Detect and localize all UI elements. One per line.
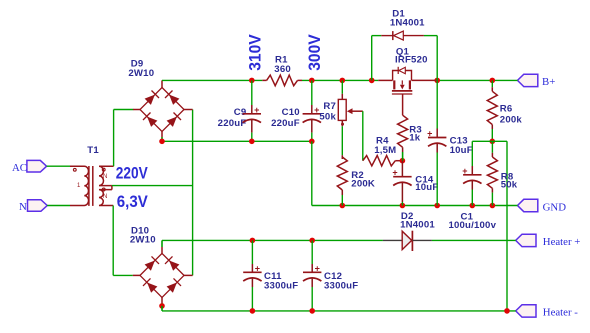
wire middle tap vertical to D9 and D10 — [192, 110, 194, 276]
junction C13 bottom — [434, 203, 440, 209]
junction C10 bottom — [309, 139, 315, 145]
svg-text:1N4001: 1N4001 — [400, 220, 435, 231]
junction R4 R3 C14 — [400, 158, 406, 164]
junction R2 bottom — [340, 203, 346, 209]
port B+ — [518, 74, 538, 86]
bridge rectifier D10 — [130, 225, 193, 311]
svg-text:200k: 200k — [500, 115, 523, 126]
wire heater+ rail right — [432, 239, 516, 241]
svg-text:+: + — [315, 263, 320, 273]
junction C9 bottom — [249, 139, 255, 145]
capacitor C11 — [243, 240, 298, 311]
wire R7 bottom to R2 — [341, 126, 343, 155]
svg-text:10uF: 10uF — [450, 145, 473, 156]
wire D1 left to 300V rail — [371, 36, 373, 81]
svg-text:AC: AC — [12, 162, 27, 174]
svg-text:+: + — [462, 166, 467, 176]
capacitor C13 — [427, 80, 473, 205]
svg-text:1N4001: 1N4001 — [390, 18, 425, 29]
svg-text:220uF: 220uF — [271, 118, 300, 129]
resistor R8 — [487, 141, 517, 205]
port N — [28, 200, 48, 212]
svg-text:300V: 300V — [305, 34, 324, 71]
svg-text:1k: 1k — [409, 133, 421, 144]
wire heater- rail — [162, 310, 516, 312]
junction C14 bottom — [400, 203, 406, 209]
svg-text:3300uF: 3300uF — [324, 281, 358, 292]
svg-text:3300uF: 3300uF — [264, 281, 298, 292]
wire GND rail — [312, 205, 518, 207]
potentiometer R7 — [319, 80, 362, 126]
capacitor C1 — [448, 141, 496, 231]
capacitor C10 — [271, 80, 321, 141]
svg-text:Heater -: Heater - — [543, 306, 578, 318]
resistor R4 — [363, 136, 403, 166]
wire negative rail down to GND rail — [311, 141, 313, 205]
capacitor C12 — [303, 240, 358, 311]
svg-text:N: N — [19, 201, 27, 213]
svg-text:100u/100v: 100u/100v — [448, 220, 496, 231]
svg-text:310V: 310V — [245, 34, 264, 71]
junction C12 bottom — [309, 308, 315, 314]
wire secondary top to bridge D9 — [113, 110, 115, 167]
transformer T1 — [70, 145, 114, 206]
svg-text:220V: 220V — [116, 165, 148, 183]
svg-text:C9: C9 — [234, 107, 247, 118]
svg-text:T1: T1 — [87, 145, 99, 156]
junction D1 anode rail — [369, 78, 375, 84]
svg-text:IRF520: IRF520 — [395, 55, 428, 66]
svg-text:GND: GND — [543, 201, 567, 213]
wire R7 wiper down to R4 — [362, 111, 364, 161]
svg-text:1,5M: 1,5M — [374, 145, 396, 156]
svg-text:2W10: 2W10 — [130, 234, 156, 245]
junction elevation to heater- — [504, 308, 510, 314]
wire AC to T1 primary — [47, 165, 70, 167]
port Heater + — [516, 234, 536, 246]
junction R6 top — [490, 78, 496, 84]
wire heater+ rail left — [162, 239, 383, 241]
junction B+ node — [434, 78, 440, 84]
wire secondary bottom to bridge D10 — [112, 206, 114, 276]
wire HV rail middle (300V) — [302, 79, 378, 81]
svg-text:50k: 50k — [319, 112, 336, 123]
capacitor C9 — [218, 80, 261, 141]
junction R6 bottom node — [490, 139, 496, 145]
wire elevation node down to Heater- — [506, 141, 508, 311]
wire heater elevation node — [472, 140, 507, 142]
svg-text:R7: R7 — [323, 101, 336, 112]
port Heater - — [516, 305, 536, 317]
svg-text:10uF: 10uF — [415, 182, 438, 193]
wire bridge negative rail — [162, 140, 312, 142]
resistor R3 — [398, 115, 422, 161]
wire Q1 gate to R3 — [402, 94, 404, 115]
junction C11 top — [250, 238, 256, 244]
diode D1 — [372, 8, 438, 80]
svg-text:C10: C10 — [282, 107, 300, 118]
junction C11 bottom — [250, 308, 256, 314]
junction 300V rail — [309, 78, 315, 84]
svg-text:360: 360 — [274, 64, 291, 75]
svg-text:R6: R6 — [500, 104, 513, 115]
bridge rectifier D9 — [128, 59, 192, 142]
svg-text:2W10: 2W10 — [128, 68, 154, 79]
junction D9 bottom — [159, 139, 165, 145]
svg-text:50k: 50k — [501, 180, 518, 191]
svg-text:N: N — [103, 194, 107, 200]
resistor R6 — [487, 80, 522, 141]
svg-text:+: + — [255, 263, 260, 273]
junction C1 bottom — [470, 203, 476, 209]
resistor R1 — [262, 54, 302, 85]
svg-text:200K: 200K — [351, 178, 375, 189]
junction dot D10 bottom — [159, 303, 165, 309]
svg-text:6,3V: 6,3V — [117, 193, 148, 211]
wire HV rail left (310V) — [162, 79, 262, 81]
svg-text:N: N — [103, 174, 107, 180]
resistor R2 — [337, 155, 375, 195]
svg-text:220uF: 220uF — [218, 118, 247, 129]
wire N to T1 primary — [47, 205, 70, 207]
junction R7 top — [340, 78, 346, 84]
diode D2 — [383, 211, 435, 251]
port AC — [27, 160, 47, 172]
svg-text:+: + — [427, 129, 432, 139]
svg-text:+: + — [392, 168, 397, 178]
svg-text:Heater +: Heater + — [543, 236, 581, 248]
junction R8 bottom — [490, 203, 496, 209]
wire D1 right to B+ node — [436, 36, 438, 81]
wire B+ rail right — [437, 79, 517, 81]
svg-text:+: + — [254, 105, 259, 115]
transistor Q1 IRF520 — [378, 47, 437, 116]
port GND — [518, 199, 538, 211]
capacitor C14 — [392, 161, 438, 206]
svg-text:B+: B+ — [542, 76, 555, 88]
junction C12 top — [309, 238, 315, 244]
wire secondary middle tap — [112, 185, 193, 187]
junction 310V rail — [249, 78, 255, 84]
